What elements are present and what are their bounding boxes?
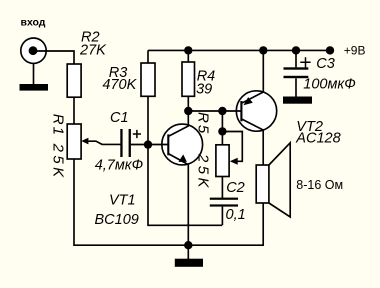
svg-text:AC128: AC128 <box>295 131 340 147</box>
svg-text:C3: C3 <box>316 56 335 72</box>
svg-text:8-16 Ом: 8-16 Ом <box>296 178 343 192</box>
svg-text:+9В: +9В <box>344 44 366 58</box>
svg-text:25K: 25K <box>49 143 66 181</box>
svg-text:BC109: BC109 <box>95 212 139 228</box>
svg-text:25K: 25K <box>194 153 211 191</box>
svg-text:вход: вход <box>21 16 46 28</box>
svg-text:R1: R1 <box>49 114 66 137</box>
svg-text:4,7мкФ: 4,7мкФ <box>95 158 143 174</box>
svg-text:C2: C2 <box>226 180 245 196</box>
svg-text:100мкФ: 100мкФ <box>303 77 356 93</box>
svg-text:C1: C1 <box>110 110 129 126</box>
svg-text:0,1: 0,1 <box>226 207 246 223</box>
svg-text:R5: R5 <box>194 112 211 135</box>
svg-text:39: 39 <box>196 82 212 98</box>
svg-text:470K: 470K <box>102 77 137 93</box>
svg-text:27K: 27K <box>79 42 107 58</box>
svg-text:VT1: VT1 <box>109 193 136 209</box>
